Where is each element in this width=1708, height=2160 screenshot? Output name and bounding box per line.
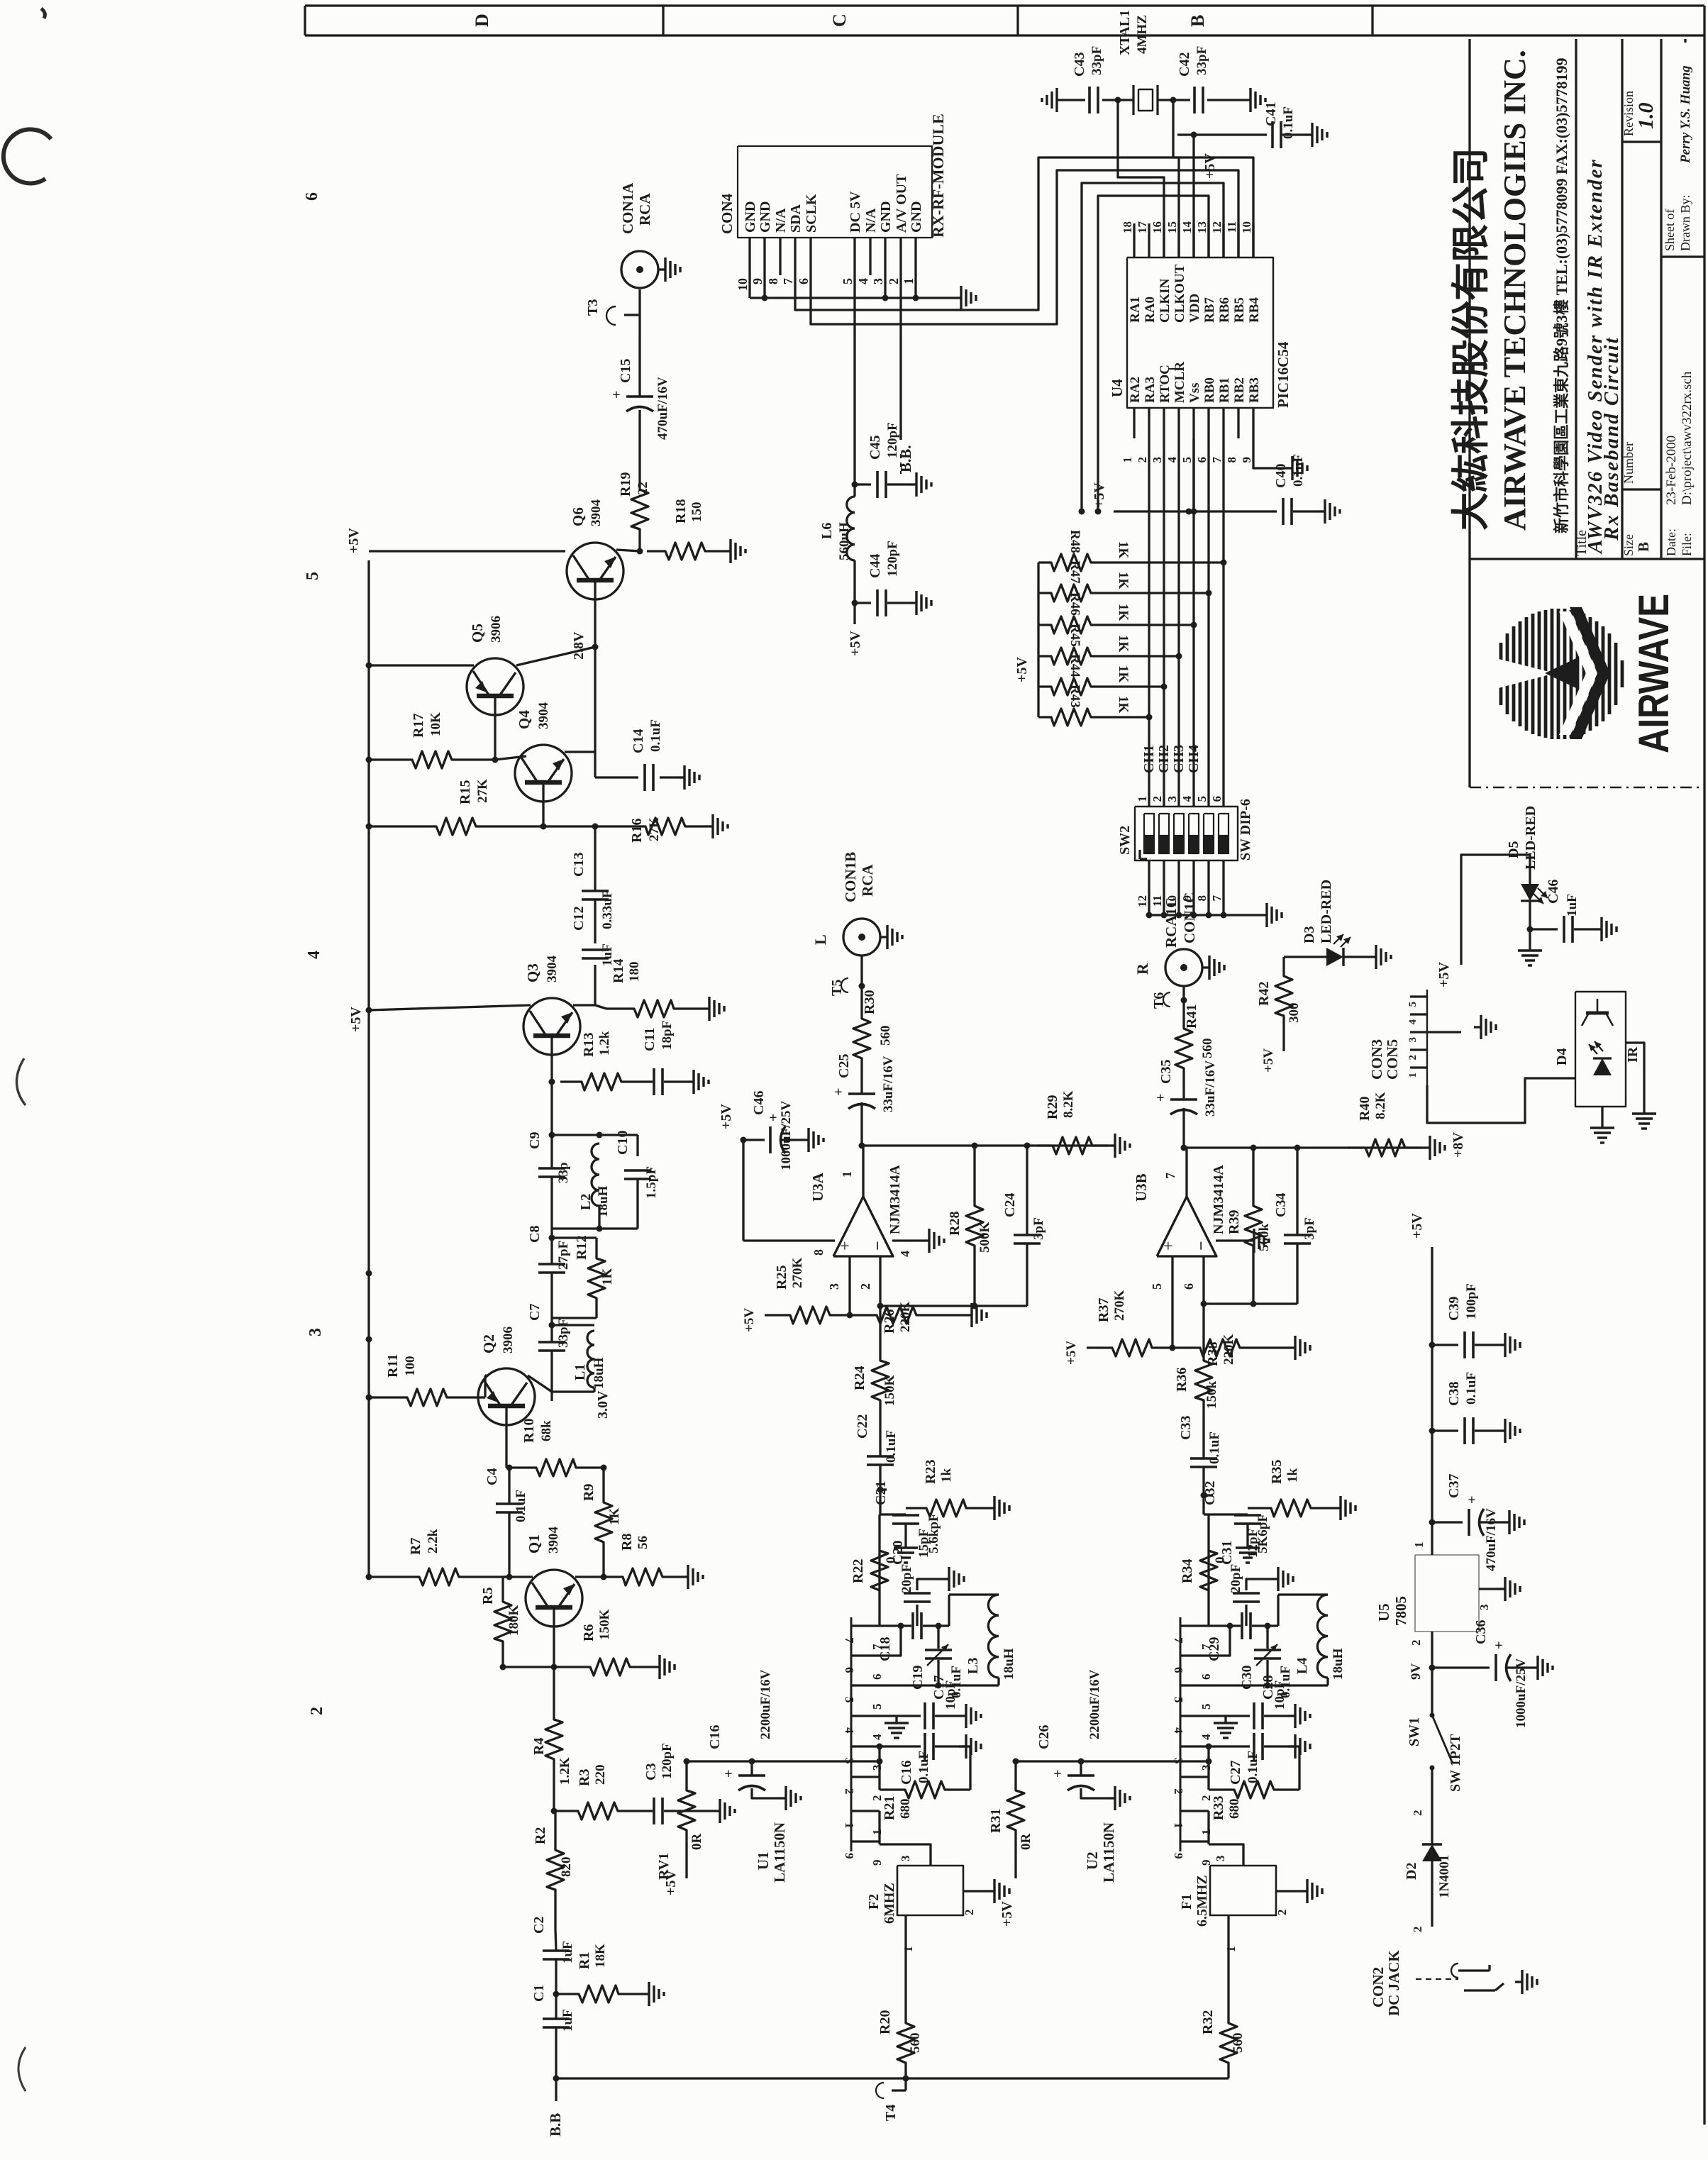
- svg-text:C34: C34: [1273, 1193, 1289, 1217]
- ground CON1C: [1202, 966, 1209, 968]
- capacitor C13: [594, 869, 596, 890]
- capacitor C11: [653, 1068, 655, 1095]
- svg-text:23-Feb-2000: 23-Feb-2000: [1664, 436, 1679, 505]
- svg-text:R43: R43: [1067, 685, 1082, 708]
- ground C45: [909, 483, 916, 485]
- ground R23: [987, 1507, 994, 1509]
- svg-text:R47: R47: [1067, 560, 1082, 584]
- resistor R12: [588, 1238, 605, 1318]
- svg-text:27pF: 27pF: [556, 1241, 571, 1270]
- svg-text:DC 5V: DC 5V: [848, 191, 863, 233]
- svg-text:C40: C40: [1273, 464, 1289, 488]
- resistor R14: [606, 1000, 702, 1017]
- svg-text:560: 560: [908, 2033, 923, 2054]
- wire R45 to column: [1103, 655, 1179, 657]
- svg-text:120pF: 120pF: [660, 1743, 675, 1779]
- SW2 slot 1: [1144, 814, 1154, 853]
- svg-text:GND: GND: [878, 201, 894, 233]
- svg-text:3904: 3904: [546, 1527, 561, 1554]
- svg-text:+: +: [836, 1241, 855, 1251]
- svg-text:2200uF/16V: 2200uF/16V: [758, 1670, 773, 1739]
- svg-text:NJM3414A: NJM3414A: [1211, 1165, 1226, 1234]
- resistor R1: [556, 1985, 642, 2003]
- SW2 ground bus: [1149, 914, 1260, 916]
- wire SW2 column 3: [1177, 438, 1180, 807]
- wire R47 to column: [1103, 592, 1209, 594]
- connector CON1B: [843, 919, 880, 956]
- SW2 bottom pin 8: [1207, 860, 1209, 915]
- connector CON4: [738, 146, 932, 238]
- svg-text:560: 560: [1231, 2033, 1246, 2054]
- svg-text:16: 16: [1150, 221, 1164, 233]
- resistor R18: [647, 543, 723, 560]
- wire Q3 collector down: [550, 1055, 553, 1082]
- ground D3: [1369, 956, 1376, 958]
- wire U3B pin6: [1202, 1256, 1204, 1304]
- wire R33 loop: [1288, 1746, 1299, 1790]
- capacitor C24: [1026, 1146, 1028, 1234]
- svg-text:3: 3: [1477, 1605, 1491, 1611]
- svg-text:R29: R29: [1045, 1095, 1060, 1119]
- svg-text:+5V: +5V: [719, 1104, 734, 1129]
- wire DC5V: [853, 275, 855, 497]
- ground R26: [965, 1314, 972, 1316]
- svg-text:L4: L4: [1294, 1658, 1310, 1674]
- svg-text:C2: C2: [531, 1917, 547, 1934]
- svg-text:T3: T3: [585, 299, 601, 316]
- U2 pin 7: [1180, 1624, 1209, 1627]
- ground C46b: [1595, 928, 1602, 930]
- svg-text:1K: 1K: [1116, 635, 1131, 653]
- resistor R21: [878, 1777, 880, 1790]
- capacitor C36: [1432, 1666, 1490, 1668]
- svg-text:3: 3: [1150, 457, 1164, 463]
- svg-text:7: 7: [781, 278, 795, 284]
- ground R14: [702, 1007, 709, 1009]
- wire Q2 emitter: [528, 1375, 552, 1392]
- U1 pin 2: [851, 1776, 880, 1778]
- svg-text:C36: C36: [1473, 1620, 1489, 1644]
- svg-text:1k: 1k: [939, 1468, 954, 1483]
- svg-text:5: 5: [841, 278, 855, 284]
- svg-text:6: 6: [303, 192, 321, 201]
- ground R38: [1288, 1346, 1295, 1348]
- svg-text:33uF/16V: 33uF/16V: [1203, 1060, 1218, 1117]
- resistor R8: [604, 1568, 681, 1585]
- feedback wire U3A: [880, 1305, 1027, 1307]
- svg-text:B: B: [1187, 15, 1208, 27]
- svg-text:4: 4: [1407, 1019, 1419, 1025]
- ground C39: [1498, 1344, 1505, 1346]
- svg-text:3: 3: [827, 1283, 841, 1290]
- svg-text:D3: D3: [1302, 926, 1317, 943]
- svg-text:1uF: 1uF: [560, 1941, 575, 1964]
- svg-text:R39: R39: [1226, 1210, 1242, 1234]
- ground R6: [653, 1666, 660, 1668]
- svg-text:2.8V: 2.8V: [571, 631, 587, 660]
- svg-text:大紘科技股份有限公司: 大紘科技股份有限公司: [1450, 148, 1492, 531]
- AIRWAVE logo: [1490, 607, 1622, 739]
- svg-text:R13: R13: [581, 1033, 597, 1057]
- svg-text:GND: GND: [743, 201, 758, 233]
- svg-text:680: 680: [898, 1799, 913, 1820]
- capacitor C17: [897, 1715, 921, 1717]
- wire VDD: [1192, 135, 1194, 257]
- ground U4: [1285, 467, 1292, 469]
- svg-text:20pF: 20pF: [1229, 1564, 1243, 1593]
- U4 bottom pins: [1133, 408, 1135, 438]
- svg-text:Sheet of: Sheet of: [1663, 209, 1677, 251]
- svg-text:R45: R45: [1067, 624, 1082, 647]
- wire U1 pin1 down: [878, 1811, 880, 1844]
- svg-text:56: 56: [636, 1536, 650, 1549]
- wire D5: [1461, 855, 1530, 965]
- svg-text:150K: 150K: [597, 1610, 612, 1641]
- svg-text:1: 1: [843, 1822, 856, 1829]
- svg-text:7: 7: [1163, 1173, 1177, 1179]
- svg-text:R28: R28: [947, 1212, 963, 1236]
- wire SW2 column 4: [1192, 438, 1194, 807]
- svg-text:1: 1: [840, 1171, 854, 1178]
- svg-text:R: R: [1133, 963, 1151, 975]
- svg-text:8.2K: 8.2K: [1061, 1090, 1076, 1118]
- svg-text:1k: 1k: [1285, 1468, 1300, 1483]
- wire D4 right: [1626, 1043, 1644, 1107]
- svg-text:12: 12: [1210, 221, 1224, 233]
- svg-text:3904: 3904: [536, 702, 551, 730]
- svg-text:68k: 68k: [539, 1420, 554, 1441]
- svg-text:L2: L2: [578, 1194, 594, 1210]
- U1 pin 3: [851, 1745, 880, 1747]
- svg-text:RB6: RB6: [1217, 297, 1232, 323]
- svg-text:1.0: 1.0: [1634, 103, 1658, 130]
- svg-text:R41: R41: [1184, 1004, 1199, 1029]
- resistor RV1: [678, 1761, 695, 1859]
- svg-text:6MHZ: 6MHZ: [882, 1883, 897, 1924]
- svg-text:C14: C14: [631, 729, 646, 753]
- svg-text:R5: R5: [480, 1588, 496, 1605]
- svg-text:7805: 7805: [1392, 1596, 1409, 1626]
- svg-text:180: 180: [627, 962, 642, 982]
- svg-text:C42: C42: [1177, 52, 1192, 77]
- svg-text:C27: C27: [1228, 1761, 1243, 1785]
- svg-text:180K: 180K: [506, 1605, 521, 1636]
- IC U1 LA1150N: [850, 1617, 853, 1851]
- regulator U5 7805: [1415, 1555, 1479, 1632]
- capacitor C38: [1432, 1429, 1458, 1431]
- wire U2 pin4 gnd: [1209, 1715, 1226, 1717]
- resistor R9: [595, 1468, 612, 1577]
- svg-text:DC JACK: DC JACK: [1385, 1950, 1402, 2016]
- wire C21 gnd: [904, 1532, 906, 1541]
- svg-text:RA2: RA2: [1128, 377, 1143, 403]
- wire SW2 column 1: [1148, 438, 1150, 807]
- resistor R7: [369, 1568, 509, 1585]
- U1 pin 1: [851, 1810, 880, 1812]
- svg-text:C7: C7: [527, 1304, 543, 1321]
- svg-text:+5V: +5V: [346, 528, 362, 553]
- ground C3: [713, 1810, 720, 1812]
- svg-text:C44: C44: [867, 554, 883, 578]
- svg-text:20pF: 20pF: [899, 1564, 914, 1593]
- svg-text:4MHZ: 4MHZ: [1135, 15, 1150, 54]
- svg-text:C31: C31: [1219, 1541, 1235, 1565]
- svg-text:4: 4: [856, 278, 870, 284]
- svg-text:Q1: Q1: [526, 1534, 543, 1553]
- wire SW2 column 6: [1222, 438, 1224, 807]
- svg-text:1K: 1K: [1116, 541, 1131, 559]
- svg-text:5: 5: [870, 1704, 884, 1710]
- svg-text:RB3: RB3: [1247, 377, 1262, 403]
- transistor Q1: [526, 1570, 582, 1627]
- svg-text:33pF: 33pF: [1089, 46, 1104, 75]
- wire U3B out row: [1184, 1146, 1423, 1148]
- ground C41: [1305, 133, 1312, 135]
- svg-text:8: 8: [766, 278, 780, 284]
- inductor L3: [948, 1595, 950, 1626]
- capacitor C12: [582, 948, 609, 951]
- ground C27: [1288, 1745, 1295, 1747]
- SW2 bottom pin 7: [1222, 860, 1224, 915]
- svg-text:4: 4: [898, 1251, 912, 1257]
- svg-text:AIRWAVE: AIRWAVE: [1630, 594, 1677, 753]
- svg-text:27K: 27K: [475, 779, 490, 803]
- svg-text:3906: 3906: [489, 616, 504, 643]
- svg-text:4: 4: [1172, 1727, 1185, 1734]
- ground C38: [1498, 1429, 1505, 1431]
- wire D5 low: [1529, 901, 1531, 929]
- svg-text:4: 4: [1165, 457, 1179, 463]
- svg-text:9: 9: [750, 278, 765, 284]
- svg-text:R18: R18: [673, 499, 689, 524]
- svg-text:R1: R1: [577, 1952, 592, 1969]
- svg-text:C45: C45: [867, 436, 883, 460]
- svg-text:4: 4: [870, 1734, 884, 1740]
- wire U2 pin1 down: [1207, 1811, 1209, 1844]
- capacitor C34: [1296, 1148, 1298, 1234]
- svg-text:1: 1: [1199, 1829, 1213, 1836]
- svg-text:+5V: +5V: [1064, 1341, 1079, 1365]
- svg-text:1N4001: 1N4001: [1437, 1855, 1452, 1898]
- svg-text:4: 4: [843, 1727, 856, 1734]
- pen mark mid-left: [16, 1058, 26, 1105]
- wire R17 to Q4: [495, 756, 526, 760]
- svg-text:120pF: 120pF: [885, 541, 900, 577]
- svg-text:CON1B: CON1B: [842, 852, 859, 902]
- svg-text:7: 7: [843, 1637, 856, 1644]
- svg-text:0.33uF: 0.33uF: [600, 890, 615, 929]
- svg-text:C4: C4: [484, 1468, 500, 1485]
- svg-text:3906: 3906: [501, 1327, 516, 1353]
- connector CON1A: [621, 251, 658, 288]
- capacitor C21: [892, 1514, 919, 1517]
- video column c: [550, 1229, 553, 1238]
- capacitor C40: [1282, 498, 1285, 525]
- ground F2: [987, 1890, 994, 1892]
- svg-text:3.0V: 3.0V: [595, 1390, 611, 1419]
- wire video column a: [594, 826, 596, 869]
- resistor R42: [1275, 957, 1292, 1036]
- resistor R17: [369, 751, 495, 768]
- svg-text:Q5: Q5: [469, 624, 486, 643]
- svg-text:1: 1: [1136, 796, 1149, 802]
- SW2 bottom pin 11: [1163, 860, 1165, 915]
- transistor Q6: [567, 543, 623, 599]
- resistor R48: [1038, 554, 1103, 571]
- IC U4 PIC16C54: [1127, 257, 1273, 408]
- ground XTAL right: [1243, 99, 1250, 101]
- svg-text:RB1: RB1: [1217, 377, 1232, 403]
- svg-text:270K: 270K: [1112, 1290, 1127, 1322]
- svg-text:C28: C28: [1260, 1676, 1276, 1700]
- svg-text:300: 300: [1287, 1003, 1302, 1024]
- svg-text:18uH: 18uH: [596, 1185, 611, 1217]
- svg-text:9: 9: [870, 1860, 884, 1866]
- svg-text:R48: R48: [1067, 530, 1082, 553]
- svg-text:Size: Size: [1621, 534, 1636, 556]
- svg-text:15: 15: [1165, 221, 1179, 233]
- svg-text:3904: 3904: [545, 956, 560, 983]
- resistor R41: [1175, 1013, 1192, 1084]
- wire Q1 base down: [553, 1627, 555, 1667]
- svg-text:RB7: RB7: [1202, 297, 1217, 323]
- wire C32 gnd: [1246, 1532, 1248, 1541]
- wire BB bus: [556, 2077, 1229, 2079]
- ground D5: [1529, 929, 1531, 943]
- wire F2 pin3: [880, 1844, 931, 1866]
- resistor R31: [1007, 1761, 1024, 1859]
- capacitor C3: [653, 1798, 655, 1824]
- crystal XTAL1: [1132, 85, 1134, 115]
- capacitor C43: [1088, 87, 1091, 113]
- SW2 bottom pin 12: [1148, 860, 1150, 915]
- svg-text:8: 8: [1225, 457, 1238, 463]
- svg-text:+: +: [1053, 1766, 1061, 1782]
- wire U5 in: [1431, 1632, 1433, 1668]
- svg-text:SW DIP-6: SW DIP-6: [1238, 799, 1253, 860]
- ground CON2: [1515, 1981, 1522, 1983]
- svg-text:Drawn By:: Drawn By:: [1678, 195, 1692, 252]
- svg-text:27K: 27K: [647, 817, 662, 841]
- svg-text:U3B: U3B: [1133, 1173, 1150, 1202]
- svg-text:+5V: +5V: [1436, 962, 1452, 987]
- svg-text:C25: C25: [836, 1054, 852, 1078]
- svg-text:RCA1C: RCA1C: [1163, 897, 1180, 948]
- svg-text:R25: R25: [774, 1265, 789, 1290]
- svg-text:SW 1P2T: SW 1P2T: [1448, 1734, 1463, 1792]
- svg-text:2: 2: [1411, 1927, 1424, 1933]
- svg-text:470uF/16V: 470uF/16V: [655, 377, 670, 440]
- svg-text:3: 3: [1199, 1765, 1213, 1771]
- resistor R22: [871, 1514, 888, 1626]
- svg-text:Revision: Revision: [1621, 91, 1636, 136]
- ground C44: [909, 602, 916, 604]
- svg-text:Q6: Q6: [570, 507, 587, 526]
- svg-text:3: 3: [899, 1856, 912, 1862]
- svg-text:CON3: CON3: [1368, 1039, 1385, 1080]
- svg-text:F2: F2: [866, 1894, 882, 1910]
- wire R21 loop: [959, 1746, 970, 1790]
- wire Q6 base down: [594, 599, 596, 647]
- svg-text:33pF: 33pF: [556, 1319, 571, 1348]
- wire U3A pin4 gnd: [892, 1239, 922, 1241]
- svg-text:+5V: +5V: [1202, 153, 1218, 179]
- svg-text:C10: C10: [615, 1131, 631, 1155]
- wire U3A pin2: [879, 1256, 881, 1306]
- svg-text:L3: L3: [965, 1658, 981, 1674]
- resistor R11: [369, 1389, 485, 1406]
- svg-text:C35: C35: [1158, 1060, 1174, 1084]
- capacitor C25: [848, 1092, 875, 1095]
- resistor R3: [554, 1802, 642, 1820]
- svg-text:LED-RED: LED-RED: [1319, 880, 1334, 943]
- wire R46 to column: [1103, 624, 1194, 626]
- inductor L4: [1277, 1595, 1279, 1626]
- capacitor C7: [538, 1341, 565, 1344]
- svg-text:Q2: Q2: [480, 1334, 497, 1353]
- ground R1: [642, 1993, 649, 1995]
- wire Q1 emitter: [575, 1575, 604, 1578]
- svg-text:RB0: RB0: [1202, 377, 1217, 403]
- svg-text:1K: 1K: [1116, 604, 1131, 621]
- svg-text:+: +: [1156, 1090, 1164, 1106]
- svg-text:2: 2: [1172, 1788, 1185, 1795]
- CON4 gnd bus: [748, 275, 750, 298]
- svg-text:2: 2: [1275, 1910, 1289, 1916]
- svg-text:9: 9: [843, 1853, 856, 1859]
- svg-text:Q3: Q3: [524, 963, 541, 982]
- transistor Q3: [523, 998, 580, 1055]
- U2 pin 5: [1180, 1684, 1209, 1686]
- svg-text:1: 1: [870, 1829, 884, 1836]
- resistor R20: [897, 2007, 914, 2078]
- svg-text:PIC16C54: PIC16C54: [1275, 341, 1292, 408]
- svg-text:D4: D4: [1554, 1048, 1570, 1065]
- U2 pin 1: [1180, 1810, 1209, 1812]
- capacitor C46b: [1530, 928, 1558, 930]
- resistor R47: [1038, 585, 1103, 602]
- ground D4: [1601, 1107, 1603, 1121]
- svg-text:LA1150N: LA1150N: [771, 1822, 788, 1883]
- svg-text:33pF: 33pF: [1194, 46, 1209, 75]
- svg-text:+: +: [612, 387, 620, 403]
- wire U3B out: [1185, 1148, 1187, 1197]
- wire R6 row: [503, 1666, 567, 1668]
- capacitor C30 trimmer: [1266, 1626, 1268, 1649]
- U2 pin 2: [1180, 1776, 1209, 1778]
- svg-text:C46: C46: [1546, 880, 1561, 904]
- svg-text:+5V: +5V: [348, 1007, 364, 1032]
- svg-text:820: 820: [559, 1857, 574, 1878]
- svg-text:−: −: [1192, 1241, 1211, 1251]
- wire F2 pin2 gnd: [963, 1890, 987, 1892]
- wire Vss down: [1192, 438, 1194, 511]
- svg-text:R11: R11: [385, 1354, 401, 1378]
- transistor Q4: [515, 745, 572, 802]
- svg-text:1.5pF: 1.5pF: [644, 1166, 659, 1199]
- U4 top pins: [1133, 223, 1135, 257]
- svg-text:0.1uF: 0.1uF: [1281, 106, 1296, 139]
- svg-text:+: +: [724, 1766, 732, 1782]
- svg-text:R32: R32: [1200, 2010, 1216, 2034]
- svg-text:+5V: +5V: [742, 1308, 757, 1332]
- svg-text:C37: C37: [1446, 1474, 1462, 1498]
- wire U3B pin5: [1171, 1256, 1173, 1348]
- svg-text:9: 9: [1240, 457, 1253, 463]
- ground C36: [1531, 1666, 1538, 1668]
- U1 pin 5: [851, 1684, 880, 1686]
- resistor R32: [1220, 2007, 1237, 2078]
